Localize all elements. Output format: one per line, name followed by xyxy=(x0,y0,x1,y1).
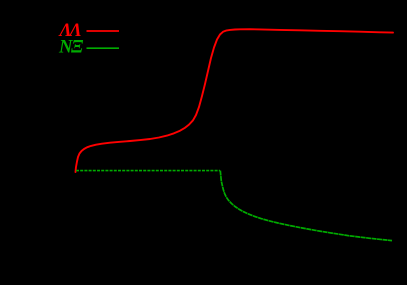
svg-text:NΞ: NΞ xyxy=(58,37,84,58)
